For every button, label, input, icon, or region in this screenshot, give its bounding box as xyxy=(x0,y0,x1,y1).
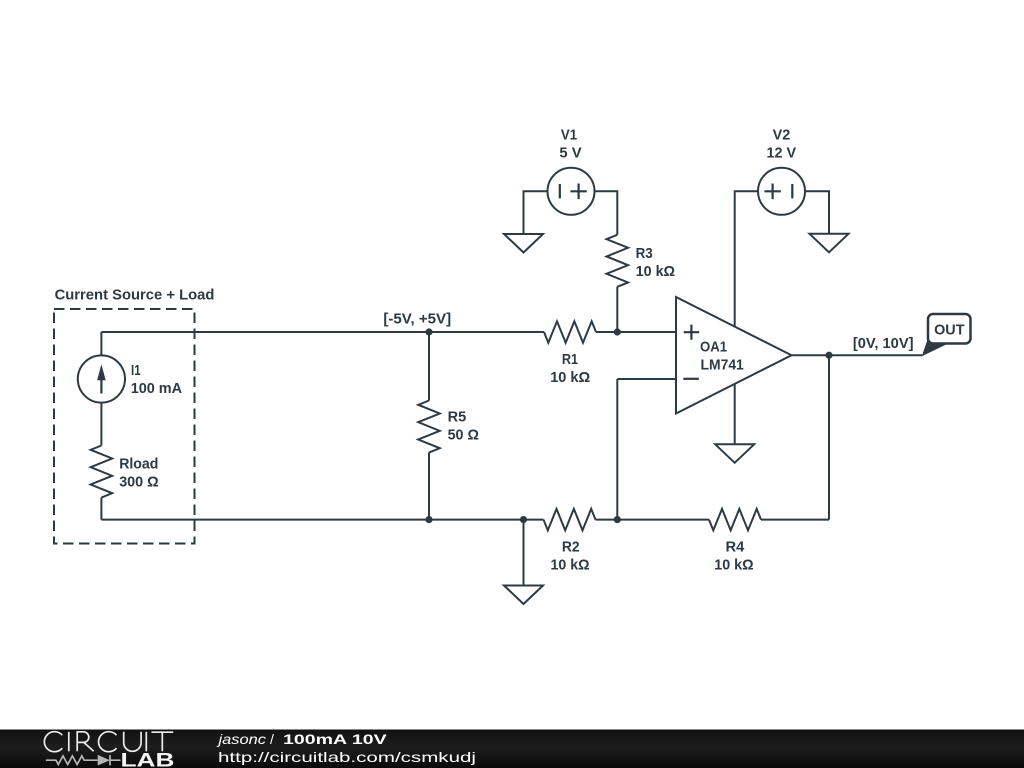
wire inverting input xyxy=(617,378,676,380)
svg-text:V1: V1 xyxy=(561,127,577,144)
wire V1 minus to ground xyxy=(524,191,548,234)
svg-text:300 Ω: 300 Ω xyxy=(119,474,159,491)
svg-text:/: / xyxy=(270,731,274,747)
OUT flag box xyxy=(928,314,971,344)
I1 arrow xyxy=(97,364,106,393)
op-amp minus input marker xyxy=(683,378,699,380)
svg-text:Current Source + Load: Current Source + Load xyxy=(55,287,215,304)
svg-text:R5: R5 xyxy=(448,408,467,425)
node ground tap xyxy=(520,516,527,523)
voltage source V1 xyxy=(548,168,595,215)
wire R3 top lead to V1 xyxy=(595,191,618,235)
resistor Rload body xyxy=(91,446,113,498)
resistor R1 body xyxy=(544,321,596,343)
node R5 bottom xyxy=(425,516,432,523)
svg-text:10 kΩ: 10 kΩ xyxy=(636,263,676,280)
wire bottom rail left xyxy=(101,519,543,521)
svg-text:50 Ω: 50 Ω xyxy=(448,426,479,443)
dashed subcircuit box xyxy=(54,309,195,544)
wire V2 plus to op-amp V+ xyxy=(735,191,758,326)
wire feedback vertical right xyxy=(828,355,830,519)
svg-text:OUT: OUT xyxy=(934,322,964,339)
node [-5V,+5V] / R5 top xyxy=(425,328,432,335)
op-amp plus input marker xyxy=(684,325,700,340)
op-amp OA1 xyxy=(676,297,792,414)
ground for bottom rail xyxy=(504,586,543,605)
svg-text:R3: R3 xyxy=(636,245,653,262)
footer bar xyxy=(0,730,1024,768)
wire V2 minus to ground xyxy=(805,191,829,234)
svg-text:12 V: 12 V xyxy=(767,145,797,162)
svg-text:10 kΩ: 10 kΩ xyxy=(550,369,590,386)
svg-text:LM741: LM741 xyxy=(701,357,744,374)
current source I1 xyxy=(78,355,125,402)
V1 polarity marks xyxy=(560,184,587,200)
wire inverting feedback vertical xyxy=(616,379,618,520)
svg-text:LAB: LAB xyxy=(121,751,175,768)
svg-text:Rload: Rload xyxy=(119,456,158,473)
voltage source V2 xyxy=(758,168,805,215)
svg-text:V2: V2 xyxy=(773,127,791,144)
svg-text:http://circuitlab.com/csmkudj: http://circuitlab.com/csmkudj xyxy=(218,749,476,765)
wire bottom rail right xyxy=(761,519,829,521)
svg-text:[0V, 10V]: [0V, 10V] xyxy=(853,335,914,352)
logo CIRCUIT wordmark xyxy=(44,732,173,752)
resistor R4 body xyxy=(709,509,761,531)
svg-text:10 kΩ: 10 kΩ xyxy=(714,556,753,573)
V2 polarity marks xyxy=(764,184,792,200)
resistor R2 body xyxy=(544,509,596,531)
ground for V1 xyxy=(504,234,543,253)
svg-text:100mA 10V: 100mA 10V xyxy=(283,731,388,747)
svg-text:R2: R2 xyxy=(562,538,580,555)
logo diode arrow xyxy=(98,755,110,766)
wire Rload to bottom rail xyxy=(100,498,102,520)
wire R3 bottom lead xyxy=(616,287,618,332)
svg-text:[-5V, +5V]: [-5V, +5V] xyxy=(383,311,451,328)
wire op-amp V- to ground xyxy=(734,384,736,444)
wire I1 top lead xyxy=(100,332,102,355)
wire top rail from I1 to R1 xyxy=(101,331,544,333)
ground for op-amp xyxy=(715,444,754,463)
svg-text:5 V: 5 V xyxy=(559,145,581,162)
svg-text:100 mA: 100 mA xyxy=(131,380,183,397)
wire ground stub bottom rail xyxy=(523,520,525,586)
node junction dots xyxy=(425,328,832,523)
svg-text:jasonc: jasonc xyxy=(216,731,266,747)
wire output xyxy=(792,354,923,356)
node output xyxy=(825,352,832,359)
node R1/R3/op-amp xyxy=(614,328,621,335)
resistor R5 xyxy=(418,332,440,520)
resistor R3 body xyxy=(607,235,629,287)
node feedback bottom xyxy=(614,516,621,523)
svg-text:R4: R4 xyxy=(726,539,745,556)
svg-text:10 kΩ: 10 kΩ xyxy=(551,556,590,573)
svg-text:R1: R1 xyxy=(562,351,578,368)
logo resistor-diode symbol xyxy=(46,755,121,765)
svg-text:I1: I1 xyxy=(131,362,141,379)
wire R1 to op-amp noninverting input xyxy=(596,331,676,333)
OUT flag pointer xyxy=(922,340,948,357)
svg-text:OA1: OA1 xyxy=(700,339,727,356)
wire bottom rail middle xyxy=(596,519,710,521)
ground for V2 xyxy=(810,234,849,253)
wire I1 bottom lead xyxy=(100,403,102,446)
